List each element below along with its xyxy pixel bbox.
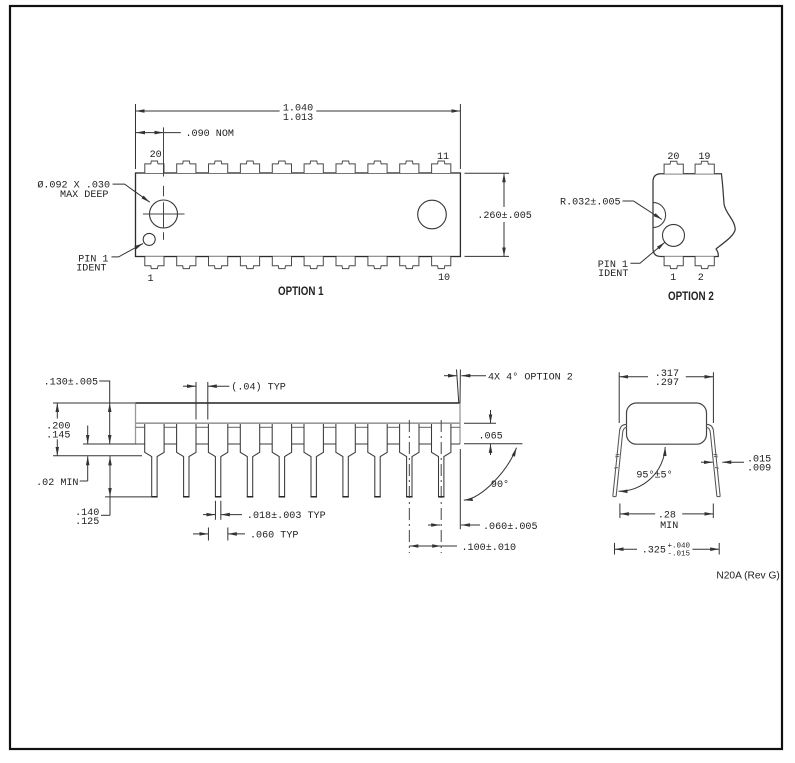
svg-text:11: 11 <box>437 152 449 163</box>
svg-text:.145: .145 <box>46 431 70 442</box>
svg-text:MIN: MIN <box>660 521 678 532</box>
svg-text:.090 NOM: .090 NOM <box>186 129 234 140</box>
svg-text:IDENT: IDENT <box>76 263 106 274</box>
svg-text:.325: .325 <box>642 546 666 557</box>
svg-text:OPTION 2: OPTION 2 <box>668 289 714 303</box>
svg-text:.060 TYP: .060 TYP <box>250 530 298 541</box>
svg-text:.018±.003 TYP: .018±.003 TYP <box>247 511 326 522</box>
svg-text:1: 1 <box>670 273 676 284</box>
svg-text:10: 10 <box>438 273 450 284</box>
svg-text:1.013: 1.013 <box>283 113 313 124</box>
svg-text:.297: .297 <box>655 378 679 389</box>
svg-text:20: 20 <box>667 152 679 163</box>
svg-text:.065: .065 <box>479 431 503 442</box>
svg-text:(.04) TYP: (.04) TYP <box>231 382 286 394</box>
svg-text:N20A (Rev G): N20A (Rev G) <box>716 571 779 582</box>
svg-text:.060±.005: .060±.005 <box>483 522 538 533</box>
svg-text:.130±.005: .130±.005 <box>44 378 99 389</box>
svg-text:IDENT: IDENT <box>598 269 628 280</box>
svg-text:.28: .28 <box>658 510 676 521</box>
svg-text:19: 19 <box>698 152 710 163</box>
svg-text:.02 MIN: .02 MIN <box>36 478 78 489</box>
svg-text:.100±.010: .100±.010 <box>462 543 517 554</box>
svg-text:-.015: -.015 <box>668 551 691 559</box>
svg-text:.260±.005: .260±.005 <box>477 211 532 222</box>
svg-text:MAX DEEP: MAX DEEP <box>60 190 108 201</box>
svg-text:R.032±.005: R.032±.005 <box>560 197 621 208</box>
svg-text:90°: 90° <box>491 479 509 491</box>
svg-text:.009: .009 <box>747 464 771 475</box>
svg-text:OPTION 1: OPTION 1 <box>278 284 324 298</box>
svg-text:4X 4° OPTION 2: 4X 4° OPTION 2 <box>488 372 573 384</box>
svg-text:1: 1 <box>147 274 153 285</box>
svg-text:2: 2 <box>698 273 704 284</box>
svg-text:.125: .125 <box>75 517 99 528</box>
svg-text:+.040: +.040 <box>668 543 691 551</box>
svg-text:95°±5°: 95°±5° <box>636 469 672 481</box>
svg-text:20: 20 <box>150 150 162 161</box>
